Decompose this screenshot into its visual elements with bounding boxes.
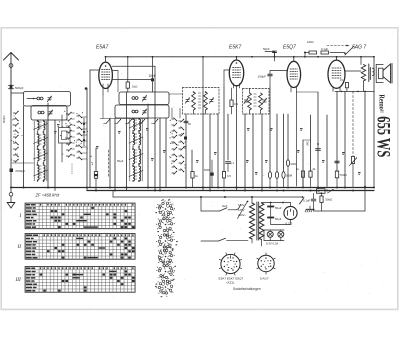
antenna [10,53,12,116]
svg-text:6 Z 3: 6 Z 3 [286,222,293,226]
resistor 700 [335,171,338,178]
oscillator coil box 2 [115,105,169,118]
capacitor 0,1uF bottom [313,193,315,198]
wire right edge [373,57,375,187]
wire left stub [11,162,34,164]
speaker [375,65,377,83]
capacitor 337 [335,160,339,162]
svg-text:110V: 110V [238,203,244,207]
wire osc box [154,66,156,92]
svg-text:6,3V 0,3A: 6,3V 0,3A [266,242,278,246]
svg-text:ZF =468 kHz: ZF =468 kHz [35,193,61,198]
tube E5K7 [229,60,243,86]
svg-text:655 WS: 655 WS [373,116,394,157]
switch contact bottom [300,198,305,205]
pin number smudges [74,140,75,141]
wire T2 [249,89,251,94]
oscillator coil box 1 [119,92,169,105]
svg-text:700Ω: 700Ω [340,173,348,177]
svg-text:0,5: 0,5 [227,174,231,178]
svg-text:5AG 7: 5AG 7 [352,45,366,51]
svg-text:(AZ1): (AZ1) [227,281,235,285]
wire cathode bus [335,90,374,92]
svg-text:S1b: S1b [222,204,228,208]
IF transformer T1 (dashed box) [183,88,220,115]
capacitor antenna 500pF [10,86,13,89]
svg-text:Sockelschaltungen: Sockelschaltungen [233,287,261,291]
table III [25,267,135,293]
svg-text:3W: 3W [306,141,310,146]
switch S1 [330,52,345,54]
wire grid E5A7 [90,69,99,71]
svg-text:500pF: 500pF [15,86,24,90]
dashed wire [303,190,317,192]
band switch S1a contacts [13,112,15,114]
tube socket octal [221,254,240,273]
capacitor 4700pF [10,169,14,173]
svg-text:I: I [19,213,22,219]
bus line 3 [113,196,303,198]
svg-text:5 AG7: 5 AG7 [260,277,269,281]
capacitor 0,1 [226,161,231,163]
wire antenna to box [11,92,24,94]
svg-text:E5K7: E5K7 [229,45,241,51]
capacitor 50pF [265,51,275,53]
svg-text:0,1µF: 0,1µF [321,47,328,51]
svg-text:500pF: 500pF [2,115,6,123]
field coil [360,57,362,65]
resistor 150 [345,82,348,87]
dashed shaft link [352,91,354,156]
wire E5Q7 pins [290,87,292,92]
contact row [106,120,110,124]
wire E5K7 pins [233,84,235,89]
electrolytic capacitors 50uF [270,203,272,225]
svg-text:100pF: 100pF [258,75,267,79]
svg-text:5000: 5000 [291,162,297,166]
capacitor 5000 [211,173,214,176]
svg-text:E5A7: E5A7 [96,45,108,51]
resistor box [317,189,326,194]
tube socket small [258,255,274,271]
ground hatched [309,206,311,209]
resistor 96 [94,172,97,179]
dashed link 2 [108,150,110,178]
arrow contact [328,190,334,194]
wire secondary top [262,202,291,204]
output transformer [373,68,375,75]
dotted link [71,164,73,174]
band switch S2 contacts [66,113,68,115]
svg-text:E5Q7: E5Q7 [283,45,296,51]
dashed link [327,45,349,47]
table I [25,203,135,229]
wire bottom right [314,210,366,212]
wire top bus [106,56,375,58]
IF transformer T2 (dashed box) [243,89,270,115]
capacitor 100pF [269,71,271,74]
wafer switch rosettes [170,207,172,209]
wire rectifier out [271,224,291,226]
resistors right group [301,171,304,177]
wire plate [345,70,361,72]
wire E5A7 pins [112,78,152,80]
svg-text:Remo: Remo [377,94,386,110]
resistor 0,1 [230,100,233,107]
coil stack L2 [133,119,135,131]
bus line 2 [87,190,374,192]
potentiometer [351,157,354,164]
antenna coil box 1 [24,92,71,107]
wire tube pin down [102,95,104,119]
table II [25,234,135,260]
wire T1 [202,57,204,92]
junction dots [83,118,85,146]
resistor 1k mid [191,172,194,179]
svg-text:0,1µF: 0,1µF [303,199,310,203]
svg-text:II: II [17,244,22,250]
switch S1b [200,197,202,211]
svg-text:→: → [262,173,265,177]
wire S3 risers [171,108,173,118]
tube E5A7 [99,62,113,88]
svg-text:0,1: 0,1 [230,161,234,165]
svg-text:5000: 5000 [204,168,210,172]
svg-text:50pF: 50pF [263,47,270,51]
svg-text:RL: RL [318,189,322,193]
value label smudges [57,124,60,125]
rectifier tube [284,206,297,219]
resistor 50k bottom [321,193,323,196]
power transformer [251,197,253,203]
scan noise speckles [5,30,395,307]
resistor 1k [127,57,129,82]
ground [10,188,12,193]
resistor 0,5M [222,172,225,179]
svg-text:50µF: 50µF [117,159,124,163]
svg-text:50kΩ: 50kΩ [326,198,333,202]
switch S2b [201,240,219,242]
pilot lamps [267,231,273,237]
coil stack L1 [38,121,40,130]
vertical wires [23,106,25,188]
capacitor 50pF mid [184,120,188,122]
capacitor 318 [316,148,321,150]
band switch S3 contacts [172,118,174,120]
switch frame [59,128,71,144]
antenna coil box 2 [31,106,67,121]
svg-text:0,1: 0,1 [234,102,239,106]
svg-text:0,5M: 0,5M [286,174,293,178]
output tube 5AG7 [328,60,345,88]
capacitor 5000pF right [286,160,289,166]
tube E5Q7 [287,61,301,87]
svg-text:50µF: 50µF [275,206,282,210]
svg-text:50µF: 50µF [275,217,282,221]
svg-text:10kΩ: 10kΩ [307,40,314,44]
bus line 1 [11,187,374,189]
paper capacitors [268,172,271,179]
svg-text:1kΩ: 1kΩ [132,85,138,89]
svg-text:III: III [15,277,21,283]
